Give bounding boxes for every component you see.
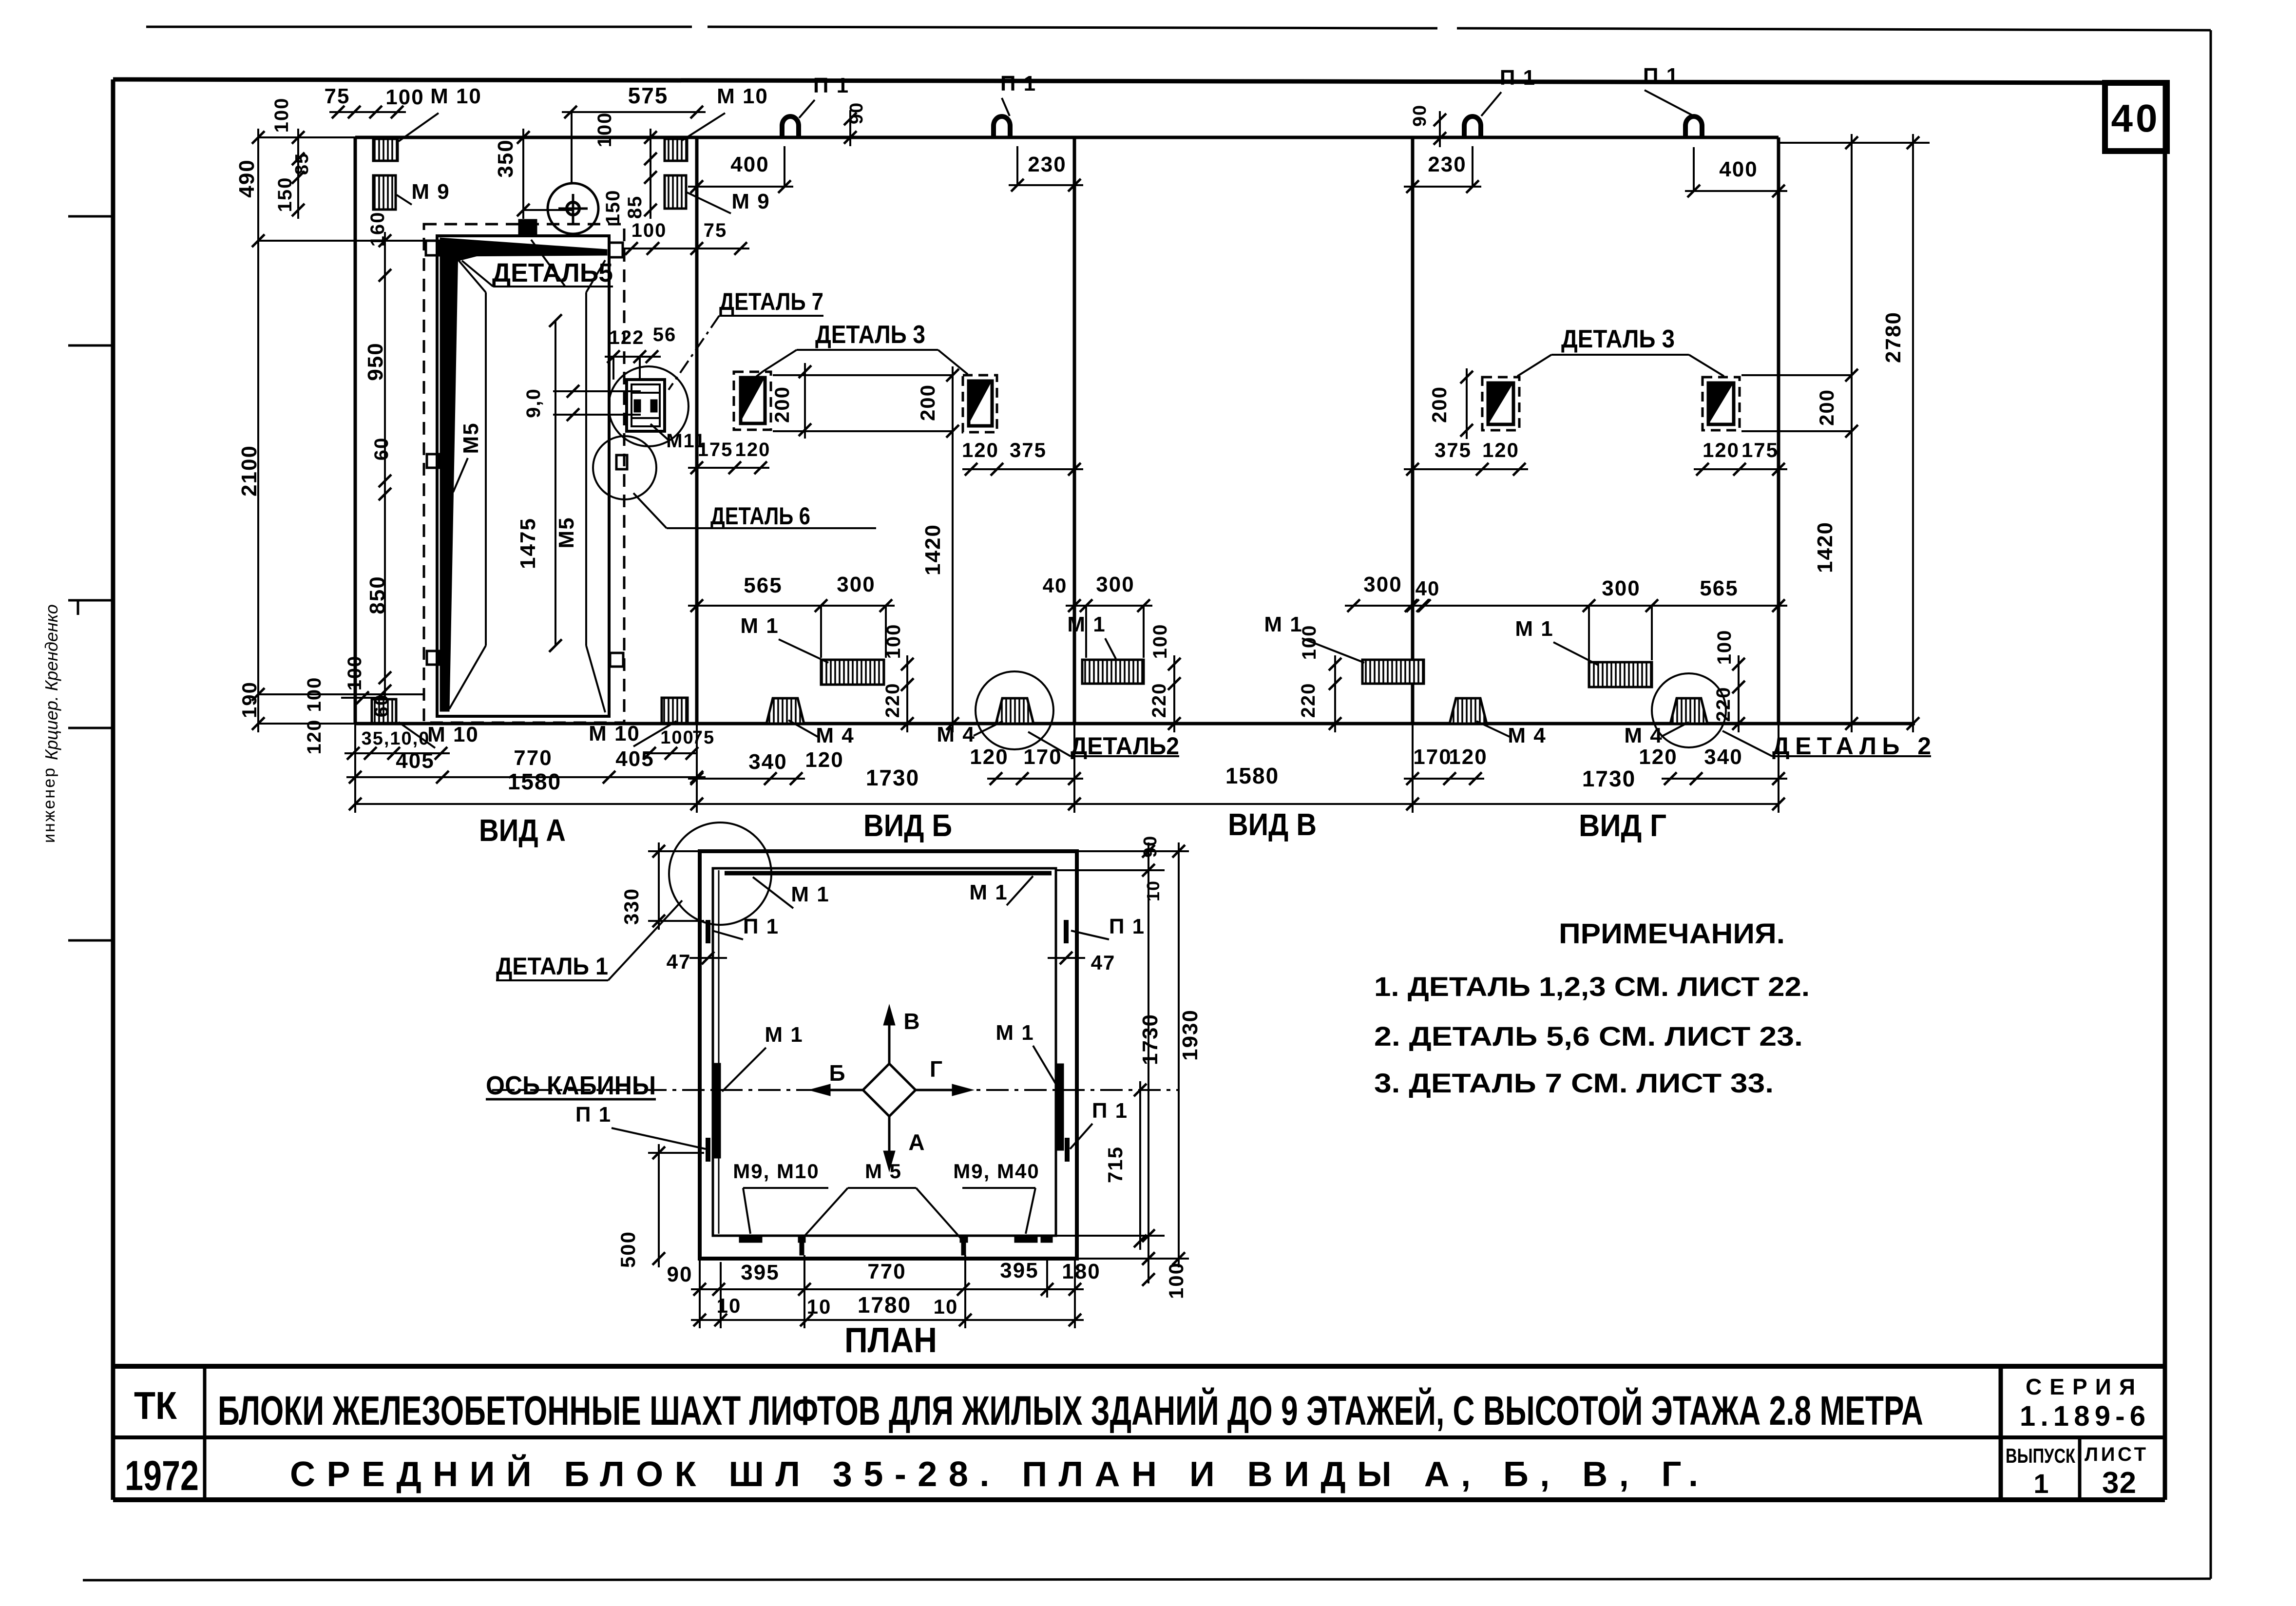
compass arrow V up (883, 1005, 921, 1064)
views strip bottom edge (355, 722, 1915, 726)
plan bottom anchor marks (739, 1236, 1052, 1255)
anchor plate M10 bottom-left (372, 699, 396, 723)
outer thin border right line (2210, 30, 2212, 1579)
label M4 view B left (788, 720, 855, 747)
label Detail 2 view B with leader (1028, 732, 1179, 760)
svg-text:Б: Б (829, 1060, 846, 1086)
detail 6 callout circle (593, 436, 656, 499)
svg-text:ДЕТАЛЬ 6: ДЕТАЛЬ 6 (710, 502, 810, 530)
plan inner wall outline (713, 868, 1056, 1236)
svg-text:1420: 1420 (921, 524, 945, 575)
title block vypusk cell (2006, 1444, 2075, 1499)
label P1 hook G-right (1643, 64, 1694, 116)
label Detail 3 view B with bent leader (746, 321, 968, 385)
svg-text:М 4: М 4 (1624, 724, 1663, 747)
dim 2780 overall right of view G (1779, 134, 1930, 732)
dim row 120 170 view B (970, 745, 1083, 785)
svg-text:БЛОКИ ЖЕЛЕЗОБЕТОННЫЕ ШАХТ ЛИФТ: БЛОКИ ЖЕЛЕЗОБЕТОННЫЕ ШАХТ ЛИФТОВ ДЛЯ ЖИЛ… (218, 1388, 1923, 1434)
dim 565 300 above M1 bar view B (688, 573, 895, 658)
svg-text:1420: 1420 (1813, 521, 1837, 573)
svg-text:350: 350 (494, 139, 517, 177)
plan title (844, 1321, 937, 1360)
svg-text:220: 220 (1298, 683, 1319, 718)
dim row1 ticks under view A (344, 747, 698, 760)
svg-text:120: 120 (735, 439, 771, 460)
dim 120 175 below window G-right (1694, 439, 1787, 476)
outer thin border bottom line (83, 1579, 2211, 1580)
lifting hook P1 view B right (994, 116, 1010, 137)
compass arrow B left (809, 1060, 863, 1096)
dim 100 220 right of M1 bar view B (882, 624, 914, 732)
dim chain 160 950 60 850 60 120 left of door (304, 211, 392, 755)
dim 100 220 right of M1 bar view G (1713, 630, 1745, 732)
svg-text:9,0: 9,0 (523, 388, 544, 418)
fold mark 1 (68, 215, 113, 218)
dim 500 plan left bottom (616, 1144, 704, 1268)
engineer signature vertical text (40, 604, 61, 843)
door frame dashed outline (424, 224, 624, 723)
svg-text:ДЕТАЛЬ5: ДЕТАЛЬ5 (492, 258, 613, 287)
dim 400 top of view G (1685, 147, 1787, 197)
dim row labels 35 10 0 M10 under view A (362, 721, 715, 749)
window detail 3 view B left (734, 372, 771, 430)
label Detail 2 view G with leader (1722, 731, 1931, 760)
svg-text:ТК: ТК (134, 1384, 177, 1427)
label P1 hook G-left (1481, 66, 1536, 116)
svg-text:100: 100 (594, 112, 615, 148)
svg-text:М 10: М 10 (430, 84, 482, 108)
plan dim row 90 395 770 395 180 (667, 1259, 1101, 1296)
svg-text:10: 10 (934, 1295, 958, 1318)
svg-text:ВИД Б: ВИД Б (863, 808, 952, 843)
dim 230 top of view B (1009, 146, 1083, 191)
dim chain 490 2100 190 left of view A (235, 129, 437, 732)
anchor plate M9 right (665, 175, 686, 209)
dim 90 at hook G (1410, 104, 1446, 147)
svg-text:1580: 1580 (1225, 763, 1279, 788)
view B title (863, 808, 952, 843)
svg-text:М 1: М 1 (1067, 612, 1106, 636)
svg-text:47: 47 (1091, 951, 1116, 974)
svg-text:М 4: М 4 (1508, 724, 1546, 747)
svg-text:200: 200 (916, 384, 939, 421)
svg-text:32: 32 (2102, 1466, 2137, 1500)
anchor bar M1 view V right (1362, 660, 1424, 684)
note line 1 (1374, 971, 1810, 1002)
title block cell TK (134, 1384, 177, 1427)
svg-text:М 1: М 1 (791, 882, 829, 906)
svg-text:35,10,0: 35,10,0 (362, 728, 430, 749)
svg-text:340: 340 (748, 750, 787, 774)
compass diamond (863, 1064, 916, 1116)
dim 1580 view V (1068, 763, 1419, 810)
svg-text:ДЕТАЛЬ 3: ДЕТАЛЬ 3 (1561, 325, 1675, 353)
plan right dim chain 1930 (1172, 842, 1202, 1267)
label M9 left with leader (397, 180, 450, 205)
svg-text:330: 330 (620, 888, 643, 925)
title block seriya cell (2020, 1374, 2145, 1432)
svg-text:300: 300 (1602, 576, 1640, 600)
plan outer wall outline (700, 851, 1077, 1259)
dim 1580 under view A (349, 769, 703, 810)
svg-text:170: 170 (1413, 745, 1452, 769)
label M9 M10 plan left (733, 1160, 828, 1234)
label M1 plan top-left (753, 877, 830, 908)
dim 575 top of view A (562, 83, 706, 183)
anchor plate M10 top-right (665, 139, 687, 161)
svg-text:300: 300 (1096, 573, 1134, 596)
title block cell 1972 (125, 1453, 199, 1499)
svg-text:10: 10 (807, 1295, 832, 1318)
label M1 plan top-right (969, 876, 1033, 905)
dim 200 window G-left (1428, 368, 1473, 439)
svg-text:3. ДЕТАЛЬ 7 СМ. ЛИСТ 33.: 3. ДЕТАЛЬ 7 СМ. ЛИСТ 33. (1374, 1068, 1774, 1098)
svg-text:М 1: М 1 (765, 1023, 803, 1047)
dim 1730 view B (690, 765, 1081, 810)
svg-text:Г: Г (930, 1056, 943, 1082)
label M1 view V left with leader (1067, 612, 1116, 659)
svg-text:П 1: П 1 (743, 915, 779, 938)
dim 175 120 right of M11 (688, 439, 770, 474)
dim 330 plan left top (620, 842, 704, 930)
svg-text:М5: М5 (459, 422, 483, 454)
svg-text:М 4: М 4 (937, 723, 975, 746)
label P1 hook B-left (799, 74, 849, 118)
view A left edge (354, 137, 357, 724)
dim 400 top of view B (688, 146, 793, 193)
anchor bar M1 view V left (1082, 660, 1144, 684)
svg-text:М 1: М 1 (969, 880, 1008, 904)
label M9 M10 plan right (953, 1160, 1039, 1234)
svg-text:1930: 1930 (1178, 1009, 1202, 1061)
svg-text:М 9: М 9 (411, 180, 450, 204)
plan P1 tick bottom-left (706, 1138, 710, 1162)
label P1 plan bottom-left (575, 1103, 706, 1149)
drawing frame right border (2163, 83, 2167, 1500)
svg-text:400: 400 (730, 153, 769, 176)
svg-text:40: 40 (2111, 96, 2161, 140)
label M4 view B right (937, 721, 1003, 746)
svg-text:120: 120 (962, 439, 999, 461)
svg-text:инженер: инженер (40, 766, 58, 843)
view G right edge (1777, 137, 1780, 724)
svg-text:М9, М10: М9, М10 (733, 1160, 819, 1183)
anchor square door bottom-right (610, 653, 623, 667)
svg-text:П 1: П 1 (575, 1103, 612, 1127)
dim 90 at hook B (844, 102, 867, 146)
dim 1730 view G (1406, 766, 1785, 810)
title block middle line (113, 1435, 2165, 1439)
sheet number box 40 (2105, 83, 2167, 151)
svg-text:565: 565 (744, 574, 782, 597)
svg-text:ПРИМЕЧАНИЯ.: ПРИМЕЧАНИЯ. (1559, 918, 1785, 950)
svg-text:120: 120 (1449, 745, 1487, 769)
svg-text:230: 230 (1428, 153, 1466, 176)
svg-text:100: 100 (1149, 624, 1171, 659)
svg-text:85: 85 (292, 153, 312, 175)
dim 100 220 right of M1 view V-left (1148, 624, 1181, 732)
dim 100 85 150 verticals right of axis (594, 112, 657, 225)
svg-text:100: 100 (660, 727, 694, 748)
anchor square on door top edge (519, 220, 536, 236)
dim 200 window B-left (770, 363, 811, 439)
title block list cell (2085, 1444, 2146, 1500)
fold mark 3 (68, 600, 113, 615)
lifting hook P1 view G right (1685, 116, 1702, 137)
svg-text:395: 395 (1000, 1259, 1038, 1282)
svg-text:375: 375 (1435, 439, 1472, 461)
detail 2 callout circle view B (976, 671, 1053, 749)
svg-text:М 1: М 1 (1264, 612, 1302, 636)
svg-text:100: 100 (304, 677, 325, 712)
svg-text:М 1: М 1 (1515, 617, 1553, 641)
view A title (479, 813, 566, 848)
svg-text:ДЕТАЛЬ 3: ДЕТАЛЬ 3 (815, 321, 925, 349)
label P1 plan top-right (1071, 915, 1145, 939)
svg-text:300: 300 (1363, 573, 1402, 596)
svg-text:150: 150 (602, 190, 624, 225)
door leaf inner outline (449, 249, 605, 712)
svg-text:90: 90 (1410, 104, 1430, 127)
view A/B shared edge (695, 137, 699, 724)
svg-text:В: В (903, 1009, 920, 1034)
label M1 plan mid-right (995, 1021, 1060, 1091)
svg-text:770: 770 (867, 1260, 906, 1283)
lifting hook P1 view G left (1464, 116, 1481, 137)
svg-text:М 9: М 9 (731, 190, 770, 213)
plan dim row 10 10 1780 10 (691, 1292, 1084, 1326)
outer thin border top line (146, 27, 2211, 30)
svg-text:120: 120 (1639, 745, 1677, 769)
svg-text:100: 100 (271, 97, 292, 133)
svg-text:М 1: М 1 (995, 1021, 1034, 1045)
title block bottom line (113, 1497, 2165, 1502)
label M1 view B with leader (740, 614, 828, 663)
anchor square door bottom-left (427, 651, 440, 665)
label Detail 1 with leader (496, 900, 682, 980)
svg-text:ВИД В: ВИД В (1228, 807, 1317, 842)
title block vypusk list divider (2078, 1437, 2082, 1500)
svg-text:П 1: П 1 (1000, 72, 1036, 96)
svg-text:2100: 2100 (237, 445, 261, 497)
svg-text:ДЕТАЛЬ 1: ДЕТАЛЬ 1 (496, 953, 608, 980)
svg-text:2780: 2780 (1881, 311, 1905, 363)
svg-text:1730: 1730 (1582, 766, 1636, 791)
dim 100 220 left of M1 view V-right (1298, 625, 1341, 732)
label M11 with leader (651, 424, 706, 452)
svg-text:175: 175 (698, 439, 733, 460)
dim chain 100 85 150 left of view A (271, 97, 312, 219)
svg-text:122: 122 (609, 327, 645, 348)
door frame outline (437, 236, 609, 716)
svg-text:120: 120 (304, 719, 325, 755)
svg-text:ОСЬ КАБИНЫ: ОСЬ КАБИНЫ (486, 1071, 656, 1100)
svg-text:10: 10 (1143, 880, 1163, 901)
svg-text:400: 400 (1719, 157, 1758, 181)
dim 40 300 above M1 bar view V-left (1043, 573, 1152, 658)
anchor square door mid-right (616, 455, 627, 469)
svg-text:220: 220 (882, 683, 903, 718)
svg-text:375: 375 (1010, 439, 1047, 461)
door frame dark top band (440, 238, 607, 266)
svg-text:180: 180 (1062, 1260, 1100, 1283)
plan corner callout circle detail 1 (669, 822, 771, 925)
plan right dim chain 90 10 1730 (1056, 835, 1189, 1267)
anchor plate M9 left (373, 175, 396, 210)
compass arrow A down (883, 1116, 926, 1171)
anchor square door top-right (609, 243, 623, 257)
title block subtitle row 2 (290, 1454, 1698, 1494)
plan dim 100 bottom right (1142, 1252, 1187, 1299)
svg-text:1780: 1780 (858, 1292, 911, 1318)
title block top line (113, 1364, 2165, 1369)
svg-text:40: 40 (1416, 577, 1440, 600)
plan P1 tick top-right (1064, 920, 1069, 943)
label M5 lower (555, 516, 578, 548)
dim 122 56 above M11 (605, 324, 676, 380)
svg-text:120: 120 (805, 748, 843, 772)
svg-text:175: 175 (1741, 439, 1779, 461)
dim 100 bottom-left of view A (304, 655, 385, 712)
axis mark circle at door top (548, 183, 598, 236)
dim 350 vertical at axis (494, 129, 573, 219)
plan witness verticals (700, 1255, 1075, 1328)
svg-text:Крциер. Кренденко: Крциер. Кренденко (41, 604, 61, 760)
svg-text:220: 220 (1148, 683, 1170, 718)
svg-text:56: 56 (653, 324, 677, 345)
svg-text:75: 75 (692, 727, 715, 748)
svg-text:200: 200 (770, 386, 793, 423)
anchor trapezoid M4 view B left (766, 698, 804, 724)
dim row 405 770 405 under view A (346, 746, 706, 784)
svg-text:120: 120 (1703, 439, 1740, 461)
label M4 view G left (1476, 721, 1547, 747)
svg-text:150: 150 (274, 177, 296, 212)
detail 7 callout circle (609, 366, 689, 446)
svg-text:300: 300 (837, 573, 875, 596)
fold mark 5 (68, 939, 113, 942)
svg-text:П 1: П 1 (1643, 64, 1679, 88)
svg-text:100: 100 (1714, 630, 1735, 665)
svg-text:565: 565 (1700, 576, 1738, 600)
dim 40 300 565 above M1 bar view G (1404, 576, 1787, 660)
label M5 upper (453, 422, 483, 492)
title block left column divider (203, 1366, 207, 1500)
svg-text:715: 715 (1104, 1146, 1127, 1183)
drawing frame left border (111, 79, 115, 1500)
plan dim 715 (1104, 1081, 1147, 1250)
dim 1475 door height (516, 314, 562, 652)
svg-text:90: 90 (1140, 835, 1161, 858)
svg-text:М 10: М 10 (589, 722, 640, 746)
anchor plate M10 bottom-right (662, 698, 688, 723)
plan inner wall double line left (718, 870, 720, 1234)
label Detail 5 with leader (462, 240, 613, 287)
svg-text:340: 340 (1704, 745, 1742, 769)
svg-text:М 10: М 10 (427, 723, 479, 746)
svg-text:П 1: П 1 (1109, 915, 1145, 938)
fold mark 4 (68, 727, 113, 729)
dim row 170 120 view G (1404, 745, 1488, 785)
lifting hook P1 view B left (782, 116, 799, 137)
svg-text:90: 90 (667, 1262, 693, 1286)
svg-text:100: 100 (344, 655, 365, 691)
svg-text:М 10: М 10 (717, 84, 768, 108)
svg-text:160: 160 (367, 211, 388, 247)
svg-text:47: 47 (667, 950, 691, 973)
plan anchor bar M1 left wall (714, 1063, 721, 1158)
anchor square door mid-left (427, 454, 439, 468)
svg-text:М 5: М 5 (865, 1160, 902, 1183)
dim 230 top of view G (1404, 146, 1481, 193)
dim chain 200 1420 in view B (773, 366, 959, 732)
dim 9.0 gap at door right (523, 385, 641, 421)
svg-text:100: 100 (385, 85, 424, 109)
dim 120 375 below window B-right (962, 439, 1083, 476)
svg-text:770: 770 (514, 746, 552, 770)
svg-text:190: 190 (238, 681, 261, 718)
label P1 plan bottom-right (1070, 1099, 1128, 1149)
svg-text:1475: 1475 (516, 517, 540, 569)
dim row 120 340 view G (1639, 745, 1787, 785)
label P1 plan top-left (712, 915, 779, 939)
anchor plate M10 top-left (373, 139, 398, 161)
anchor square door top-left (426, 241, 440, 255)
svg-text:М 1: М 1 (740, 614, 779, 638)
dim row 340 120 view B (688, 748, 844, 785)
window detail 3 view B right (963, 375, 997, 432)
svg-text:ВИД А: ВИД А (479, 813, 566, 848)
title block right column divider (1999, 1366, 2003, 1500)
label M5 plan (803, 1160, 962, 1240)
anchor bar M1 view B (821, 660, 884, 685)
svg-text:М9, М40: М9, М40 (953, 1160, 1039, 1183)
note line 3 (1374, 1068, 1774, 1098)
svg-text:ВЫПУСК: ВЫПУСК (2006, 1444, 2075, 1467)
compass arrow G right (916, 1056, 974, 1096)
anchor bar M1 view G (1589, 662, 1652, 687)
anchor trapezoid M4 view B right (996, 698, 1033, 724)
label M9 right with leader (687, 190, 770, 213)
svg-text:170: 170 (1023, 745, 1062, 769)
label M1 view V right with leader (1264, 612, 1364, 663)
svg-text:850: 850 (365, 575, 389, 614)
svg-text:А: А (908, 1129, 925, 1155)
plan anchor bar M1 right wall (1057, 1064, 1064, 1150)
plan axis line dash-dot (492, 1089, 1179, 1091)
drawing frame top border (113, 79, 2165, 83)
label M1 plan mid-left (722, 1023, 804, 1091)
svg-text:75: 75 (325, 84, 350, 108)
window detail 3 view G right (1703, 377, 1740, 430)
svg-text:ПЛАН: ПЛАН (844, 1321, 937, 1360)
label cabin axis (486, 1071, 656, 1100)
dim 47 plan left (667, 950, 727, 973)
svg-text:490: 490 (235, 159, 259, 197)
dim 375 120 below window G-left (1404, 439, 1528, 476)
svg-text:75: 75 (704, 220, 727, 241)
svg-text:1730: 1730 (866, 765, 919, 790)
view V title (1228, 807, 1317, 842)
label Detail 7 with dash-dot leader (669, 288, 823, 390)
svg-text:60: 60 (371, 437, 392, 461)
svg-text:575: 575 (628, 83, 669, 108)
svg-text:85: 85 (624, 195, 646, 219)
label P1 hook B-right (1000, 72, 1036, 116)
svg-text:500: 500 (616, 1231, 639, 1268)
anchor trapezoid M4 view G right (1670, 698, 1707, 724)
detail 7 callout squares M11 (627, 380, 665, 431)
